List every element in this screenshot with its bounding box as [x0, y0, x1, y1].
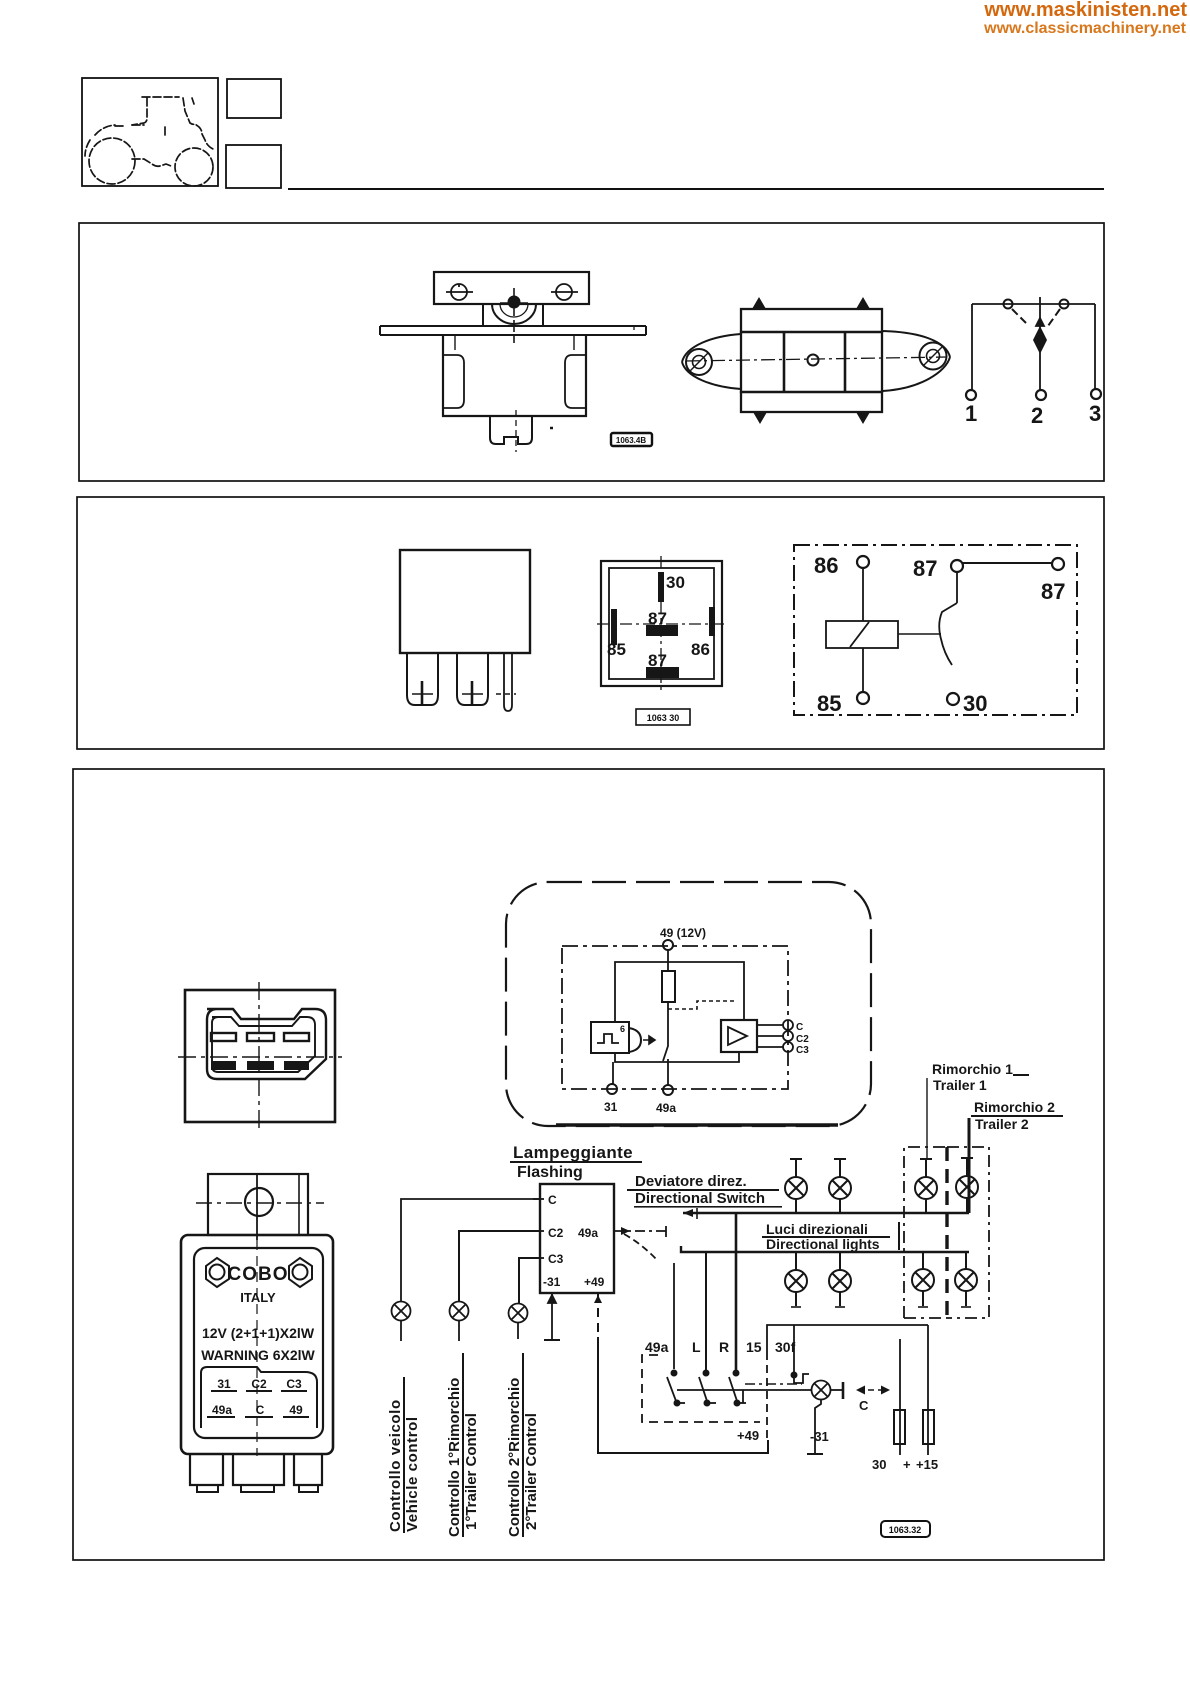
- blade 85: [607, 609, 626, 659]
- terminal 49a internal: [656, 1070, 676, 1115]
- flasher centreline: [256, 1240, 258, 1456]
- lamp ground wire -31: [807, 1400, 829, 1454]
- svg-text:www.maskinisten.net: www.maskinisten.net: [983, 0, 1187, 21]
- switch S1 top view body: [682, 309, 950, 412]
- COBO logo: [206, 1258, 312, 1287]
- rotated label trailer 1 control: [446, 1353, 480, 1537]
- trigger link dashed: [668, 1001, 737, 1009]
- svg-text:87: 87: [913, 556, 937, 581]
- header rule: [288, 188, 1104, 190]
- svg-text:85: 85: [817, 691, 841, 716]
- svg-text:Trailer 1: Trailer 1: [933, 1077, 987, 1093]
- blade 87a centre: [646, 609, 678, 636]
- switch S1 side view mounting bracket: [434, 272, 589, 304]
- pin label C2: [246, 1377, 272, 1392]
- connector slots row 1: [211, 1033, 309, 1041]
- pin label C: [245, 1403, 273, 1418]
- oscillator block: [591, 1022, 629, 1053]
- svg-text:ITALY: ITALY: [240, 1290, 276, 1305]
- svg-text:1: 1: [965, 401, 977, 426]
- trailer1 lamp L: [915, 1159, 937, 1213]
- svg-text:C3: C3: [796, 1045, 809, 1056]
- pivot dome: [483, 304, 543, 325]
- fuse 15: [916, 1325, 938, 1472]
- svg-text:12V (2+1+1)X2lW: 12V (2+1+1)X2lW: [202, 1325, 315, 1341]
- wire 49a from flasher to switch: [614, 1226, 674, 1369]
- wire +49 supply drop: [594, 1293, 620, 1453]
- switch contact L: [699, 1370, 720, 1405]
- internal bottom wire: [615, 1052, 739, 1062]
- wire L: [705, 1252, 707, 1370]
- trailer 1 boundary: [904, 1147, 947, 1318]
- pin label 49a: [207, 1403, 235, 1418]
- trailer2 lamp L: [956, 1158, 978, 1213]
- svg-text:C2: C2: [796, 1034, 809, 1045]
- panel 1 frame: [79, 223, 1104, 481]
- output wires C C2 C3: [757, 1025, 783, 1047]
- contact 30f: [791, 1372, 809, 1383]
- flasher pin C3: [533, 1252, 564, 1266]
- svg-text:C: C: [548, 1193, 557, 1207]
- rear lamp right R: [829, 1252, 851, 1307]
- pin label 31: [211, 1377, 237, 1392]
- pilot lamp H3 trailer2: [509, 1304, 528, 1340]
- right lug hole: [920, 343, 947, 370]
- wire C2 to trailer1 pilot lamp: [459, 1231, 540, 1302]
- svg-text:COBO: COBO: [228, 1264, 289, 1285]
- bottom terminal prongs: [490, 410, 553, 452]
- svg-text:30: 30: [872, 1457, 886, 1472]
- mounting plate: [380, 326, 646, 335]
- right turn bus: [681, 1246, 969, 1252]
- trailer separator heavy dashed: [945, 1147, 948, 1318]
- connector face view outer: [185, 990, 335, 1122]
- lug centrelines: [196, 1174, 324, 1240]
- internal top wire: [615, 962, 744, 1022]
- blade 87 bottom: [646, 651, 679, 678]
- svg-text:+49: +49: [737, 1428, 759, 1443]
- svg-text:+15: +15: [916, 1457, 938, 1472]
- base crosshair: [597, 556, 728, 691]
- C travel arrow: [856, 1386, 890, 1414]
- svg-text:L: L: [692, 1339, 701, 1355]
- driver element: [629, 1028, 655, 1052]
- flasher pin C: [533, 1193, 557, 1207]
- flasher block: [540, 1184, 614, 1293]
- rotated label vehicle control: [387, 1377, 421, 1533]
- pilot lamp H1 vehicle: [392, 1302, 411, 1342]
- pin label 49: [283, 1403, 309, 1418]
- switch contact 49a: [667, 1370, 689, 1405]
- figure label box 1063.4B: [611, 433, 652, 446]
- boundary bottom emphasis: [556, 1123, 838, 1126]
- terminal 30: [947, 691, 987, 716]
- svg-text:-31: -31: [543, 1275, 561, 1289]
- svg-text:Controllo 2°Rimorchio: Controllo 2°Rimorchio: [506, 1378, 523, 1537]
- trailer 2 boundary: [947, 1147, 989, 1318]
- front lamp left L: [785, 1159, 807, 1213]
- left turn bus: [683, 1208, 969, 1219]
- svg-text:6: 6: [620, 1024, 625, 1034]
- fuse 30: [872, 1339, 911, 1472]
- output terminal C2: [783, 1031, 809, 1045]
- wire -31 ground drop: [544, 1293, 560, 1340]
- terminal 85: [817, 691, 869, 716]
- switch contact R: [729, 1370, 750, 1405]
- rotated label trailer 2 control: [506, 1353, 540, 1537]
- svg-text:-31: -31: [810, 1429, 829, 1444]
- svg-text:3: 3: [1089, 401, 1101, 426]
- svg-text:WARNING 6X2lW: WARNING 6X2lW: [201, 1347, 315, 1363]
- Deviatore direz. label: [627, 1173, 782, 1208]
- svg-text:C2: C2: [548, 1226, 564, 1240]
- pilot lamp H2 trailer1: [450, 1302, 469, 1342]
- svg-text:85: 85: [607, 640, 626, 659]
- svg-text:1°Trailer Control: 1°Trailer Control: [463, 1413, 480, 1530]
- Lampeggiante label: [510, 1143, 642, 1181]
- svg-text:30: 30: [963, 691, 987, 716]
- blade 30: [658, 572, 685, 602]
- relay pin 2: [457, 653, 488, 706]
- blade 86: [691, 607, 715, 659]
- svg-text:C2: C2: [251, 1377, 267, 1391]
- svg-text:31: 31: [217, 1377, 231, 1391]
- svg-text:2: 2: [1031, 403, 1043, 428]
- coil to arm link: [898, 633, 941, 635]
- terminal 87 top: [913, 556, 963, 581]
- figure label box 1063.32: [881, 1521, 930, 1537]
- svg-text:Rimorchio 1: Rimorchio 1: [932, 1061, 1013, 1077]
- Rimorchio 1 label: [927, 1061, 1029, 1158]
- small box 2: [226, 145, 281, 188]
- svg-text:1063.32: 1063.32: [889, 1525, 922, 1535]
- svg-text:2°Trailer Control: 2°Trailer Control: [523, 1413, 540, 1530]
- relay schematic boundary: [794, 545, 1077, 715]
- top view centreline: [686, 357, 947, 361]
- contact arm: [939, 572, 957, 665]
- relay coil: [826, 621, 898, 648]
- svg-text:49a: 49a: [578, 1226, 598, 1240]
- svg-text:Trailer 2: Trailer 2: [975, 1116, 1029, 1132]
- switch common rail: [677, 1384, 812, 1403]
- svg-text:Flashing: Flashing: [517, 1164, 583, 1181]
- switch enclosure dashed: [642, 1355, 760, 1422]
- svg-text:Vehicle control: Vehicle control: [404, 1416, 421, 1532]
- tractor icon sketch: [85, 97, 213, 186]
- pivot bolt: [500, 288, 528, 343]
- svg-text:Directional Switch: Directional Switch: [635, 1190, 765, 1207]
- svg-text:87: 87: [1041, 579, 1065, 604]
- svg-text:Controllo veicolo: Controllo veicolo: [387, 1399, 404, 1532]
- contact 3 wire: [1091, 304, 1101, 399]
- wire R: [735, 1213, 738, 1370]
- lamp to capacitor link: [830, 1382, 843, 1399]
- svg-text:86: 86: [814, 553, 838, 578]
- switch terminal label row: [645, 1339, 796, 1355]
- relay base bottom view: [601, 561, 722, 686]
- svg-text:86: 86: [691, 640, 710, 659]
- small box 1: [227, 79, 281, 118]
- wire C to vehicle pilot lamp: [401, 1199, 540, 1302]
- svg-text:Controllo 1°Rimorchio: Controllo 1°Rimorchio: [446, 1378, 463, 1537]
- svg-text:Lampeggiante: Lampeggiante: [513, 1143, 633, 1162]
- contact diagram top bar: [972, 303, 1095, 305]
- svg-text:C: C: [256, 1403, 265, 1417]
- connector slots row 2: [211, 1061, 309, 1070]
- svg-text:15: 15: [746, 1339, 762, 1355]
- left lug hole: [686, 349, 712, 375]
- feed link 15/30f: [767, 1325, 928, 1440]
- top view alignment arrows: [752, 297, 870, 424]
- svg-text:49: 49: [289, 1403, 303, 1417]
- svg-text:49a: 49a: [656, 1101, 676, 1115]
- coil wire top: [862, 568, 864, 621]
- wire +49 to terminal 15 run: [620, 1440, 768, 1453]
- panel 2 frame: [77, 497, 1104, 749]
- svg-text:+49: +49: [584, 1275, 605, 1289]
- svg-text:C: C: [859, 1398, 869, 1413]
- internal circuit rounded boundary: [506, 882, 871, 1126]
- pin label C3: [281, 1377, 307, 1392]
- svg-text:Luci direzionali: Luci direzionali: [766, 1221, 868, 1237]
- rear lamp left L: [829, 1159, 851, 1213]
- amplifier A1: [721, 1020, 757, 1052]
- moving contact left: [1004, 300, 1027, 324]
- svg-text:Directional lights: Directional lights: [766, 1236, 880, 1252]
- switch body side view: [443, 335, 586, 416]
- top view centre pin: [808, 355, 819, 366]
- screw left: [446, 284, 473, 300]
- figure label box 1063.30: [636, 709, 690, 725]
- svg-text:C: C: [796, 1022, 803, 1033]
- Luci direzionali label: [762, 1221, 900, 1252]
- resistor R1: [662, 971, 675, 1032]
- flasher unit F1 top lug: [208, 1174, 308, 1235]
- wire C3 to trailer2 pilot lamp: [519, 1258, 540, 1304]
- svg-text:30: 30: [666, 573, 685, 592]
- svg-text:Rimorchio 2: Rimorchio 2: [974, 1099, 1055, 1115]
- svg-text:R: R: [719, 1339, 729, 1355]
- relay pin 3 thin: [496, 653, 516, 711]
- connector housing outline: [207, 1009, 326, 1079]
- flasher bottom tabs: [190, 1454, 322, 1492]
- svg-text:+: +: [903, 1457, 911, 1472]
- contact 2 wire with plunger: [1034, 297, 1046, 400]
- trailer1 lamp R: [912, 1252, 934, 1307]
- svg-text:49a: 49a: [212, 1403, 232, 1417]
- svg-text:1063 30: 1063 30: [647, 713, 680, 723]
- flasher body: [181, 1235, 333, 1454]
- svg-text:30f: 30f: [775, 1339, 796, 1355]
- wire 87 to 87 output: [963, 558, 1065, 604]
- svg-text:31: 31: [604, 1100, 618, 1114]
- svg-text:49 (12V): 49 (12V): [660, 926, 706, 940]
- svg-text:C3: C3: [548, 1252, 564, 1266]
- terminal 31 internal: [604, 1062, 618, 1114]
- svg-text:1063.4B: 1063.4B: [616, 436, 646, 445]
- flasher pin C2: [533, 1226, 564, 1240]
- svg-text:Deviatore direz.: Deviatore direz.: [635, 1173, 747, 1190]
- flasher contact: [663, 1032, 668, 1070]
- front lamp right R: [785, 1252, 807, 1307]
- svg-text:www.classicmachinery.net: www.classicmachinery.net: [983, 20, 1187, 37]
- output terminal C: [783, 1020, 803, 1033]
- tractor icon box: [82, 78, 218, 186]
- svg-text:C3: C3: [286, 1377, 302, 1391]
- coil wire bottom: [862, 648, 864, 692]
- panel 3 frame: [73, 769, 1104, 1560]
- screw right: [551, 284, 578, 300]
- warning pilot lamp: [812, 1381, 831, 1400]
- trailer2 lamp R: [955, 1252, 977, 1307]
- connector crosshair: [178, 982, 342, 1130]
- pin legend frame: [201, 1367, 317, 1428]
- Rimorchio 2 label: [969, 1099, 1063, 1213]
- relay K1 body: [400, 550, 530, 653]
- node 49 (12V): [660, 926, 706, 971]
- svg-text:49a: 49a: [645, 1339, 669, 1355]
- output terminal C3: [783, 1042, 809, 1056]
- internal dash-dot frame: [562, 946, 788, 1089]
- moving contact right: [1048, 300, 1069, 327]
- contact 1 wire: [966, 304, 976, 400]
- terminal 86: [814, 553, 869, 578]
- relay pin 1: [407, 653, 438, 706]
